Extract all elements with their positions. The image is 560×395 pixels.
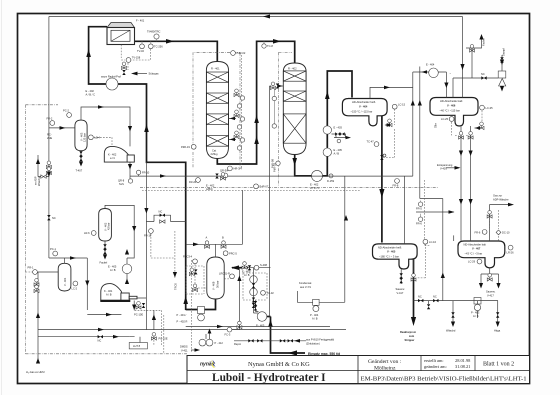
instrument PC-1: [53, 251, 58, 256]
wire dampf safety valve: [501, 55, 503, 90]
R-402 left instruments: [271, 82, 276, 90]
svg-text:A / B / C: A / B / C: [310, 186, 320, 190]
svg-text:asym Radial-Prof: asym Radial-Prof: [101, 75, 121, 79]
svg-text:E - 405: E - 405: [108, 265, 117, 269]
compressor K-402: [104, 146, 134, 162]
arrow right y329: [98, 328, 104, 332]
valves between E-409: [252, 283, 255, 288]
svg-text:A / B / C: A / B / C: [86, 92, 96, 96]
wire quench gas riser: [270, 86, 284, 317]
pump P-412: [199, 339, 206, 346]
instrument LR-6: [91, 231, 96, 236]
furnace F-401: [107, 19, 145, 45]
box LHT8: [129, 343, 147, 349]
svg-text:T-407: T-407: [76, 169, 83, 173]
svg-text:NC: NC: [418, 295, 422, 299]
arrow right Entspannung: [455, 166, 461, 170]
dashed LC-35 loop: [425, 111, 482, 246]
arrow right V-403 overhead: [98, 105, 104, 109]
instrument PC-2: [67, 113, 72, 118]
dash-dot battery limit left: [26, 105, 188, 354]
arrow down V-404 outlet: [379, 189, 384, 198]
valve gas to ADP: [487, 211, 492, 219]
svg-text:aus V-7/1: aus V-7/1: [300, 285, 312, 289]
dashed DC-10: [490, 210, 499, 241]
instrument TV-158: [126, 58, 131, 63]
svg-text:V-403: V-403: [440, 167, 447, 171]
safety valve dampf: [498, 71, 506, 78]
arrows dampf: [500, 60, 504, 66]
pump P-405: [257, 312, 267, 322]
svg-text:TV-32: TV-32: [137, 49, 144, 53]
svg-text:LC-35: LC-35: [486, 106, 494, 110]
svg-text:V - 406: V - 406: [447, 104, 456, 108]
instrument TC-8 on transfer line: [262, 44, 266, 48]
arrow down x134: [132, 226, 136, 232]
drum V-407 ND-Abscheider kalt: [458, 241, 505, 268]
svg-text:PC-10E: PC-10E: [134, 313, 143, 317]
R-401 side instrument cluster 2: [234, 110, 245, 121]
instrument HR-3/4: [228, 166, 233, 171]
svg-text:30 bar: 30 bar: [216, 281, 220, 288]
svg-text:LC-15: LC-15: [398, 103, 406, 107]
svg-text:a / b: a / b: [110, 156, 116, 160]
valve V-407 boot control: [487, 274, 492, 282]
NC valves V-405 product line: [418, 299, 423, 302]
arrow down R-402 outlet: [292, 158, 297, 166]
svg-text:PC-1: PC-1: [50, 247, 56, 251]
compressor K-401: [100, 284, 137, 302]
heat exchanger E-402 circle on feed line: [106, 78, 118, 90]
instrument TC-256: [148, 44, 153, 49]
svg-text:Häga: Häga: [494, 329, 501, 333]
instrument TI/480/TRC: [154, 34, 159, 39]
svg-text:TC-32: TC-32: [267, 291, 275, 295]
svg-text:FRC3-4: FRC3-4: [183, 255, 193, 259]
svg-text:D-159: D-159: [327, 179, 335, 183]
svg-text:LC-25: LC-25: [441, 117, 449, 121]
svg-text:A / B: A / B: [312, 316, 318, 320]
svg-text:2x5kg: 2x5kg: [211, 152, 218, 156]
dashed furnace control: [121, 45, 150, 70]
svg-text:V-417: V-417: [487, 293, 494, 297]
valve on mid line: [221, 173, 226, 181]
svg-text:P - 404: P - 404: [310, 313, 319, 317]
wire V-403 drain: [80, 151, 82, 164]
heat exchanger E-408 above K-401: [122, 264, 132, 274]
svg-text:PdR-18: PdR-18: [273, 163, 277, 172]
instrument FR-18: [149, 229, 154, 234]
arrow up E-408 line: [125, 249, 129, 255]
svg-text:FC-3: FC-3: [225, 333, 231, 337]
svg-text:TI/480/TRC: TI/480/TRC: [147, 30, 161, 34]
svg-text:geändert am:: geändert am:: [424, 364, 447, 369]
instrument PdR-07: [254, 184, 259, 189]
svg-text:Kondensat: Kondensat: [299, 281, 312, 285]
wire feed inlet Einsatz: [271, 317, 306, 354]
svg-text:NC: NC: [481, 72, 485, 76]
valve FV-3: [189, 268, 194, 276]
instrument FR-20: [196, 178, 201, 183]
valve V-405 boot diamonds: [400, 273, 403, 278]
arrow up riser mid: [144, 124, 149, 132]
svg-text:PRC-5: PRC-5: [229, 251, 237, 255]
svg-text:A: A: [206, 236, 208, 240]
svg-text:LHT 8: LHT 8: [133, 344, 141, 348]
wire R-402 bottom to V-404: [295, 71, 352, 176]
svg-text:ND-Abscheider kalt: ND-Abscheider kalt: [464, 242, 487, 246]
instrument LC-25: [449, 117, 454, 122]
exchangers E-409 A/B stack: [250, 276, 258, 284]
instrument LC-29: [477, 259, 482, 264]
svg-text:V - 405: V - 405: [387, 250, 396, 254]
instrument FR-6: [482, 230, 487, 235]
vessel V-401: [58, 263, 71, 291]
wire V-405 boot drain: [401, 259, 413, 284]
R-401 side instrument cluster 3: [234, 131, 245, 142]
valve PC-10E bottom: [151, 333, 156, 341]
wire V-402 flare: [104, 241, 106, 255]
arrow down below K-402: [128, 164, 132, 170]
arrow up effluent riser: [325, 91, 330, 99]
valve cluster A: [205, 241, 210, 249]
arrow down E-404: [444, 83, 448, 89]
V-403 bottom diamonds: [79, 151, 82, 156]
svg-text:PC-10E: PC-10E: [159, 337, 168, 341]
nynas logo: [200, 360, 216, 369]
valve NC fackel top: [481, 76, 486, 79]
dashed TRC column: [151, 231, 175, 278]
svg-text:E - 404: E - 404: [426, 63, 435, 67]
svg-text:~150 °C / ~115 bar: ~150 °C / ~115 bar: [351, 110, 373, 114]
heat exchanger E-405 on riser: [323, 148, 331, 156]
svg-text:EM-BP3\Daten\BP3 Betrieb\VISIO: EM-BP3\Daten\BP3 Betrieb\VISIO-Fließbild…: [361, 375, 527, 382]
wire ex ADP riser: [38, 155, 49, 362]
pump P-404: [313, 299, 319, 305]
instrument S-408: [254, 265, 259, 270]
svg-text:TC-8: TC-8: [267, 44, 273, 48]
svg-text:DC-10: DC-10: [502, 231, 510, 235]
wire aus P-8/10 line: [234, 340, 306, 342]
svg-text:(Zirkulation): (Zirkulation): [306, 342, 320, 346]
dash-dot mid horizontal: [140, 186, 438, 188]
svg-text:F - 401: F - 401: [136, 19, 145, 23]
wire cross line y212: [416, 199, 454, 301]
wire V-402 overhead: [105, 205, 134, 284]
svg-text:LR-26: LR-26: [507, 251, 515, 255]
arrow down to K-401: [85, 281, 89, 287]
R-401 side instrument 5: [237, 125, 241, 129]
title block: [187, 356, 530, 385]
instrument DC-10 diamond: [496, 230, 501, 235]
svg-text:42 bar: 42 bar: [107, 223, 111, 230]
R-401 side instrument 6: [237, 146, 241, 150]
svg-text:Blatt 1 von 2: Blatt 1 von 2: [483, 362, 514, 368]
svg-text:P - 412: P - 412: [215, 341, 224, 345]
svg-text:R - 402: R - 402: [288, 67, 297, 71]
svg-text:Stripper: Stripper: [405, 338, 415, 342]
valve V-405 product control: [411, 274, 416, 282]
arrows down V-407 boot: [479, 283, 483, 289]
drum V-406 HD-Abscheider kalt: [430, 98, 478, 127]
heat exchanger E-404: [429, 68, 439, 78]
arrows ex ADP riser: [36, 159, 40, 165]
instrument TC-47: [374, 142, 379, 147]
svg-text:PdR-07: PdR-07: [260, 185, 269, 189]
svg-text:TRC6: TRC6: [174, 283, 178, 290]
svg-text:NC: NC: [52, 216, 56, 220]
P-405 suction valves: [256, 300, 259, 311]
heat exchanger E-402 circle on effluent line: [312, 170, 323, 181]
svg-text:E - 402: E - 402: [206, 184, 215, 188]
arrow right K-401 suction: [106, 313, 112, 317]
arrow down product: [411, 317, 416, 326]
svg-text:Stützgas: Stützgas: [149, 72, 160, 76]
svg-text:Mölheinz: Mölheinz: [374, 365, 396, 371]
arrow up riser: [183, 296, 188, 304]
wire fackel line: [453, 36, 498, 78]
instrument FC-3: [227, 327, 232, 332]
pump P-401/402: [198, 307, 205, 314]
instrument PRC-5: [223, 251, 228, 256]
wire P-405 discharge: [262, 316, 271, 318]
page edge shadow: [0, 0, 3, 395]
valve cluster B: [221, 241, 226, 249]
svg-text:TV-158: TV-158: [132, 56, 141, 60]
svg-text:DMDS: DMDS: [180, 345, 188, 349]
instrument FR-10: [136, 170, 140, 174]
arrow up R-401 outlet: [254, 115, 259, 123]
heat exchanger E-403 on riser: [323, 126, 331, 134]
dashed V-408 instruments: [135, 260, 229, 353]
arrow right LHT8: [113, 335, 119, 339]
svg-text:LC-2: LC-2: [72, 287, 78, 291]
instrument LC-2: [73, 281, 78, 286]
wire left gas downcomer: [48, 17, 50, 259]
svg-text:Nynas GmbH & Co KG: Nynas GmbH & Co KG: [248, 361, 310, 368]
wire V-401 feed: [38, 271, 58, 273]
svg-text:LRC31-R: LRC31-R: [219, 272, 230, 276]
instrument LB-4: [89, 135, 94, 140]
svg-text:Sauerw.: Sauerw.: [486, 290, 496, 294]
svg-text:E - 405: E - 405: [334, 148, 343, 152]
svg-text:LC-29: LC-29: [468, 260, 476, 264]
svg-text:V - 401: V - 401: [63, 277, 67, 286]
svg-text:V-417: V-417: [397, 291, 404, 295]
svg-text:Fackel: Fackel: [100, 261, 108, 265]
svg-text:A / B: A / B: [473, 314, 479, 318]
wire mid horizontal y=176: [130, 176, 413, 326]
instrument PdR-19: [191, 144, 196, 149]
svg-text:28.01.98: 28.01.98: [455, 358, 471, 363]
arrows down waste water: [451, 322, 455, 328]
arrow down into V-406: [460, 64, 464, 70]
arrow right loop line: [193, 243, 199, 247]
instrument QR-8: [128, 179, 132, 183]
arrow up fackel: [479, 34, 483, 40]
svg-text:ND-Abscheider heiß: ND-Abscheider heiß: [378, 245, 402, 249]
column R-401: [206, 62, 228, 159]
wire P-403 suction header: [414, 301, 499, 325]
label PdR-18 rotated: [276, 161, 280, 165]
svg-text:PdR-19: PdR-19: [181, 145, 190, 149]
svg-text:PdR-02: PdR-02: [237, 51, 246, 55]
arrow up x153.9: [152, 315, 156, 321]
instrument TV-32: [140, 44, 145, 49]
dashed E-409 enclosure: [243, 273, 267, 300]
valves on V-408 feed: [242, 262, 247, 270]
wire V-404 to V-405: [381, 115, 383, 243]
svg-text:HD-Abscheider heiß: HD-Abscheider heiß: [352, 100, 376, 104]
arrow left top header: [263, 15, 270, 19]
arrow right V-403 feed: [60, 126, 66, 130]
dashed arrow down TRC: [173, 272, 177, 278]
valves aus P-8/10: [248, 339, 253, 342]
svg-text:K - 402: K - 402: [108, 153, 117, 157]
wire top gas header: [49, 17, 463, 98]
svg-text:FR-5: FR-5: [416, 207, 422, 211]
svg-text:V - 404: V - 404: [359, 105, 368, 109]
svg-text:V-411: V-411: [181, 348, 188, 352]
svg-text:A / B: A / B: [334, 151, 340, 155]
arrow down left downcomer: [47, 172, 51, 178]
svg-text:Wäsche: Wäsche: [37, 176, 41, 186]
svg-text:A / B: A / B: [110, 268, 116, 272]
drum V-404 HD-Abscheider heiss: [342, 99, 387, 126]
svg-text:PR-1: PR-1: [28, 266, 34, 270]
arrow up riser top: [86, 49, 91, 57]
wire V-406 boot liquid lines: [454, 126, 471, 241]
svg-text:~40 °C / ~115 bar: ~40 °C / ~115 bar: [440, 109, 460, 113]
instrument LRC31-R: [230, 274, 235, 279]
valve cluster E-403 bypass: [332, 134, 348, 138]
svg-text:S-408: S-408: [260, 263, 267, 267]
NC valve x49: [47, 215, 50, 220]
svg-text:SLS: SLS: [119, 182, 124, 186]
dashed LB-4 to K-402: [94, 137, 112, 146]
svg-text:~180 °C / ~ 3 bar: ~180 °C / ~ 3 bar: [379, 254, 399, 258]
instrument LC-10: [423, 239, 428, 244]
svg-text:2NE: 2NE: [47, 136, 52, 140]
instrument LC-35: [480, 105, 485, 110]
drum V-405 ND-Abscheider heiss: [373, 244, 418, 269]
instrument FR-8: [395, 179, 400, 184]
svg-text:Luboil - Hydrotreater I: Luboil - Hydrotreater I: [212, 372, 326, 384]
svg-text:FR-10: FR-10: [142, 171, 150, 175]
svg-text:QR-8: QR-8: [118, 179, 125, 183]
wire furnace outlet to R-401: [135, 41, 218, 62]
dash-dot R-401 enclosure: [193, 53, 240, 168]
svg-text:zum: zum: [409, 335, 415, 338]
wire FC-3 line: [230, 268, 240, 330]
svg-text:FR-6: FR-6: [416, 222, 422, 226]
svg-text:LR-6: LR-6: [84, 231, 90, 235]
svg-text:Wäschd: Wäschd: [446, 329, 456, 333]
dashed LC-10 loop: [417, 244, 425, 278]
wire K-401 suction area: [38, 301, 346, 337]
arrow left V-408 inlet: [231, 265, 239, 270]
wire R-401 bottom to R-402 top: [217, 41, 294, 164]
arrow right FC-3 line: [217, 325, 223, 329]
dashed LC-25: [452, 122, 468, 135]
arrow right to R-402: [273, 39, 281, 44]
instrument FRC3-4: [193, 259, 198, 264]
vessel V-403: [75, 120, 87, 151]
svg-text:H₂-Gas ex HMU: H₂-Gas ex HMU: [26, 370, 45, 374]
wire V-405 product to stripper: [413, 259, 415, 321]
wire V-403 feed: [49, 127, 75, 129]
svg-text:ADP-Wäsche: ADP-Wäsche: [493, 197, 509, 201]
arrow right mid line: [160, 174, 166, 178]
valve on V-404 outlet: [380, 155, 383, 160]
arrow Stützgas: [131, 72, 138, 76]
valve FV-3b: [237, 321, 242, 329]
svg-text:V - 407: V - 407: [472, 247, 481, 251]
wire K-401 discharge: [137, 298, 154, 330]
valves V-403 inlet: [46, 161, 51, 169]
instrument PR-1: [33, 270, 38, 275]
svg-text:K - 401: K - 401: [104, 289, 113, 293]
svg-text:~43 °C / ~3 bar: ~43 °C / ~3 bar: [465, 252, 483, 256]
svg-text:Repro: Repro: [234, 342, 242, 346]
wire Entspannung inlet: [446, 167, 459, 169]
svg-text:Geändert von :: Geändert von :: [368, 359, 402, 365]
wire V-406 psv: [452, 78, 454, 98]
small circle D-159: [329, 174, 333, 178]
arrow up R-401 outlet 2: [254, 136, 259, 144]
svg-text:FR-6: FR-6: [475, 230, 481, 234]
svg-text:P - 401 /: P - 401 /: [177, 313, 187, 317]
wire P-404 loop: [298, 291, 345, 302]
quench arrows into R-401: [229, 118, 237, 139]
pump P-403: [474, 298, 481, 305]
arrow up x442.8: [441, 273, 445, 279]
wire V-408 to P-401/402 pumps: [186, 298, 216, 310]
svg-text:Sauerw.: Sauerw.: [396, 287, 406, 291]
instruments FR-5/FR-6 hanging: [420, 201, 422, 203]
wire V-403 overhead to K-402: [81, 107, 139, 179]
svg-text:Entspannung: Entspannung: [437, 163, 453, 167]
wire V-404 gas to E-404: [370, 72, 443, 199]
svg-text:erstellt am:: erstellt am:: [424, 358, 444, 363]
svg-text:FR-18: FR-18: [144, 234, 152, 238]
dashed instrument line R-401: [240, 55, 242, 168]
svg-text:B: B: [222, 236, 224, 240]
svg-text:FR-2: FR-2: [47, 117, 53, 121]
svg-text:E - 403: E - 403: [334, 126, 343, 130]
wire V-408 inlet: [232, 267, 248, 269]
arrow up feed: [268, 319, 273, 327]
dash-dot R-402 left: [279, 52, 293, 186]
svg-text:PC-2: PC-2: [63, 109, 69, 113]
dashed misc bottom: [154, 315, 164, 354]
arrow down to K-402: [128, 126, 132, 132]
svg-text:LC-10: LC-10: [429, 240, 437, 244]
svg-text:LB-4: LB-4: [95, 136, 101, 140]
arrow right furnace outlet: [166, 39, 174, 44]
valve pair K-401 kickback: [136, 302, 141, 310]
arrow right to ADP: [508, 203, 514, 207]
svg-text:31.08.21: 31.08.21: [455, 364, 470, 369]
svg-text:NC: NC: [433, 295, 437, 299]
arrow right y212: [449, 210, 455, 214]
svg-text:A / B: A / B: [106, 293, 112, 297]
wire LHT8 connect: [129, 337, 140, 343]
svg-text:NC: NC: [98, 339, 102, 343]
valve LV-35: [479, 122, 484, 130]
svg-text:R - 401: R - 401: [211, 67, 220, 71]
svg-text:nynäs: nynäs: [200, 362, 215, 368]
